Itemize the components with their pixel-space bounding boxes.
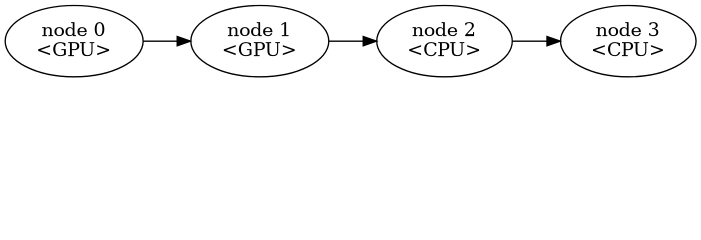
node n0 label text "node 0" <box>42 22 104 36</box>
node n3 label text "node 3" <box>596 22 658 36</box>
edge n2->n3 wire <box>513 40 547 42</box>
node n2 ellipse <box>377 6 513 77</box>
node n3 label text "<CPU>" <box>593 42 663 56</box>
node n0 label text "<GPU>" <box>38 42 109 56</box>
edge n1->n2 arrowhead <box>363 36 376 45</box>
node n1 ellipse <box>191 6 329 77</box>
edge n0->n1 wire <box>143 40 177 42</box>
node n0 ellipse <box>5 6 143 77</box>
node n1 label text "node 1" <box>228 22 289 36</box>
directed graph: node 0 <GPU> -> node 1 <GPU> -> node 2 <CPU> -> node 3 <CPU> <box>0 0 701 82</box>
node n1 label text "<GPU>" <box>224 42 295 56</box>
node n2 label text "node 2" <box>413 22 475 36</box>
edge n0->n1 arrowhead <box>177 36 190 45</box>
node n3 ellipse <box>561 6 697 77</box>
edge n2->n3 arrowhead <box>547 36 560 45</box>
node n2 label text "<CPU>" <box>409 42 479 56</box>
edge n1->n2 wire <box>329 40 363 42</box>
